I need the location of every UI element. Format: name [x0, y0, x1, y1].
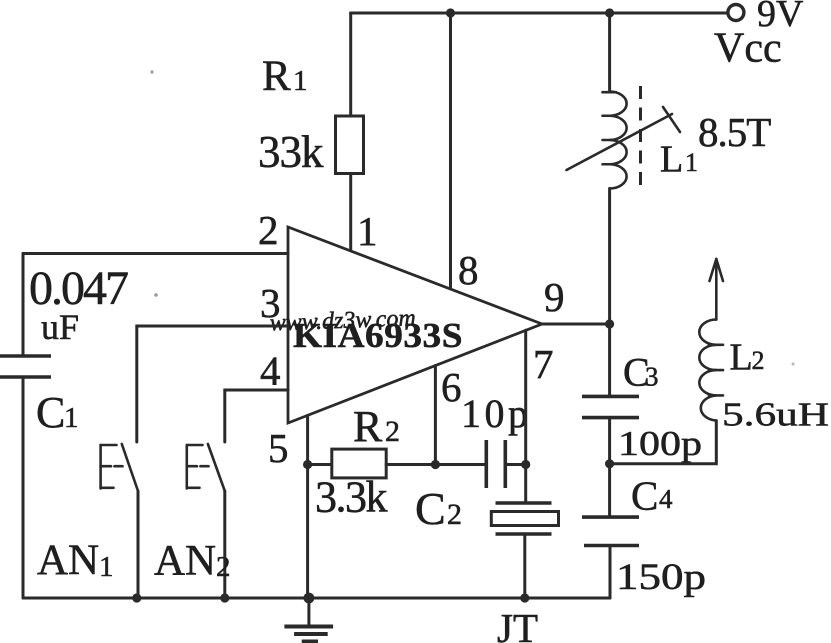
svg-text:JT: JT	[497, 605, 538, 643]
svg-text:uF: uF	[41, 307, 79, 347]
svg-text:L: L	[660, 139, 683, 181]
svg-text:5: 5	[268, 425, 289, 471]
svg-text:Vcc: Vcc	[714, 26, 782, 72]
label: C2	[415, 483, 462, 534]
svg-text:10p: 10p	[461, 391, 528, 436]
svg-text:2: 2	[752, 346, 765, 375]
wire: pin 8 from top rail to triangle	[449, 13, 452, 289]
svg-text:C: C	[631, 473, 658, 519]
svg-text:8.5T: 8.5T	[698, 109, 771, 155]
wire: pin 7 down to crystal	[524, 330, 527, 503]
label: L2	[730, 337, 765, 379]
wire: R2 to pin6 node	[386, 463, 486, 466]
label: 3.3k	[315, 473, 388, 522]
label: pin 6	[441, 364, 462, 410]
label: pin 2	[258, 207, 279, 253]
wire: pin 2	[23, 252, 288, 255]
svg-text:100p: 100p	[618, 424, 702, 463]
wire: R1 to pin 1	[349, 174, 352, 251]
label: pin 4	[260, 348, 281, 394]
label: KIA6933S	[293, 316, 463, 355]
label: uF	[41, 307, 79, 347]
junction: AN2 / bottom rail	[220, 593, 229, 602]
crystal JT	[491, 503, 558, 598]
svg-text:L: L	[730, 337, 753, 379]
wire: pin5 node to R2	[308, 463, 332, 466]
svg-text:R: R	[353, 402, 383, 451]
label: pin 9	[544, 274, 565, 320]
capacitor C3 plates	[582, 396, 639, 417]
label: Vcc	[714, 26, 782, 72]
svg-text:4: 4	[659, 484, 673, 514]
svg-text:6: 6	[441, 364, 462, 410]
wire: pin 9 output to L1 branch	[542, 323, 610, 326]
junction: top rail / pin8 wire	[446, 8, 455, 17]
switch AN2	[187, 444, 225, 491]
wire: C4 to bottom rail	[609, 546, 612, 599]
wire: pin 3 with bend down to AN1	[137, 326, 288, 442]
svg-text:1: 1	[685, 148, 698, 177]
wire: C2 right plate to pin7 line	[505, 463, 525, 466]
svg-text:www.dz3w.com: www.dz3w.com	[269, 305, 416, 336]
watermark: www.dz3w.com	[269, 305, 416, 336]
label: C1	[36, 388, 79, 437]
ground symbol	[284, 598, 333, 642]
svg-text:4: 4	[260, 348, 281, 394]
wire: pin9 node down to C3	[608, 324, 611, 396]
label: 8.5T	[698, 109, 771, 155]
label: pin 7	[533, 341, 554, 387]
svg-text:C: C	[36, 388, 65, 437]
switch AN1	[101, 444, 138, 491]
label: 0.047	[29, 262, 128, 315]
op-amp U1 triangle KIA6933S	[288, 227, 542, 423]
scan speck	[150, 70, 153, 73]
label: AN1	[37, 537, 114, 584]
label: AN2	[154, 538, 231, 585]
inductor L1 coil	[603, 92, 627, 189]
junction: ground stem / bottom rail	[304, 593, 315, 604]
svg-text:2: 2	[447, 498, 462, 531]
label: 9V	[757, 0, 804, 35]
wire: node A down to C4	[608, 464, 611, 517]
svg-text:2: 2	[258, 207, 279, 253]
svg-text:3: 3	[260, 280, 281, 326]
capacitor C1 wire from pin2 rail down	[22, 254, 25, 357]
svg-text:2: 2	[385, 415, 400, 448]
wire: AN1 bottom to rail	[137, 491, 140, 598]
svg-text:3: 3	[645, 362, 659, 392]
label: C3	[623, 350, 659, 395]
scan speck	[154, 293, 158, 297]
wire: node A to L2 bottom	[610, 421, 717, 464]
label: 150p	[616, 557, 706, 598]
svg-text:7: 7	[533, 341, 554, 387]
junction: crystal / bottom rail	[520, 593, 529, 602]
junction: AN1 / bottom rail	[132, 593, 141, 602]
wire: C3 to node A	[608, 418, 611, 464]
svg-text:C: C	[415, 483, 446, 534]
junction: pin6 / R2 wire	[431, 460, 440, 469]
wire: from top rail down to R1	[349, 13, 352, 116]
L1 adjustment arrow	[567, 107, 681, 170]
svg-text:2: 2	[216, 551, 231, 583]
label: 33k	[258, 127, 324, 177]
junction: node A (C3/C4/L2)	[605, 459, 614, 468]
L1 adjustable core dashed line	[639, 86, 642, 189]
svg-text:1: 1	[293, 65, 308, 97]
svg-text:9: 9	[544, 274, 565, 320]
label: pin 1	[357, 208, 378, 254]
svg-text:1: 1	[64, 402, 79, 434]
inductor L2 coil	[699, 320, 723, 421]
svg-text:3.3k: 3.3k	[315, 473, 388, 522]
svg-text:1: 1	[99, 551, 114, 583]
label: R2	[353, 402, 400, 451]
label: 100p	[618, 424, 702, 463]
wire: L1 branch upper segment	[608, 13, 611, 92]
svg-text:33k: 33k	[258, 127, 324, 177]
wire: top supply rail	[351, 12, 728, 15]
resistor R1 body	[336, 116, 364, 174]
label: JT	[497, 605, 538, 643]
junction: top rail / L1 branch	[605, 8, 614, 17]
label: pin 8	[458, 247, 479, 293]
svg-text:8: 8	[458, 247, 479, 293]
svg-text:R: R	[262, 53, 291, 100]
wire: L1 to pin9 node	[608, 189, 611, 325]
junction: pin7 / C2 wire	[521, 460, 530, 469]
label: L1	[660, 139, 698, 181]
label: pin 5	[268, 425, 289, 471]
svg-text:AN: AN	[154, 538, 216, 585]
label: C4	[631, 473, 673, 519]
wire: C1 to bottom rail	[22, 377, 25, 598]
junction: pin9 / L1 branch	[605, 319, 614, 328]
wire: pin 4 with bend down to AN2	[225, 390, 288, 442]
label: 10p	[461, 391, 528, 436]
wire: pin 5 down through R2 node to ground	[306, 415, 309, 598]
junction: pin5 / R2	[303, 460, 312, 469]
terminal: 9V supply open circle	[728, 5, 744, 21]
label: pin 3	[260, 280, 281, 326]
wire: pin 6 down to R2 wire	[434, 366, 437, 465]
svg-text:1: 1	[357, 208, 378, 254]
label: R1	[262, 53, 308, 100]
wire: bottom ground rail	[23, 597, 610, 600]
resistor R2 body	[332, 449, 386, 478]
svg-text:AN: AN	[37, 537, 99, 584]
capacitor C4 plates	[582, 517, 639, 545]
svg-text:150p: 150p	[616, 557, 706, 598]
capacitor C2 (10p) plates	[486, 440, 505, 488]
capacitor C1 plates	[0, 356, 51, 377]
wire: AN2 bottom to rail	[223, 491, 226, 598]
antenna	[710, 259, 724, 320]
svg-text:5.6uH: 5.6uH	[722, 397, 829, 434]
label: 5.6uH	[722, 397, 829, 434]
scan speck	[792, 363, 795, 366]
